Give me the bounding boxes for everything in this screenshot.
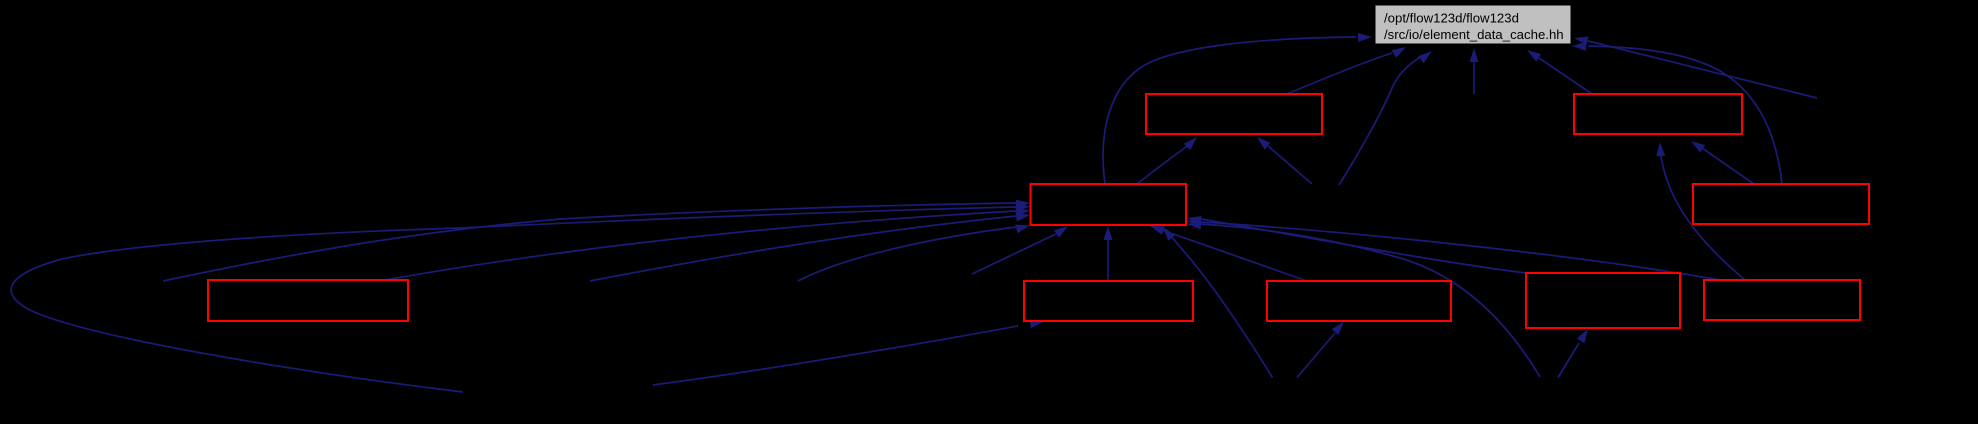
edge B to title — [1527, 50, 1592, 94]
edge bottom node V2 to hub C — [1163, 227, 1273, 378]
node F — [1024, 281, 1193, 321]
edge D to title — [1572, 42, 1782, 184]
node I — [1704, 280, 1860, 320]
edge A to title — [1287, 47, 1406, 94]
edge invisible node 3 to hub C — [972, 226, 1068, 274]
edge C to title — [1103, 33, 1372, 184]
edge far-left node to hub C — [163, 200, 1030, 282]
edge D to B — [1691, 141, 1754, 184]
node H — [1526, 273, 1680, 328]
edge E to hub C — [385, 208, 1030, 281]
node E — [208, 280, 408, 321]
edge I to B — [1656, 142, 1745, 280]
edge bottom-left node to F — [653, 319, 1044, 385]
edge bottom node V3 to H — [1558, 329, 1588, 378]
node G — [1267, 281, 1451, 321]
svg-text:/opt/flow123d/flow123d: /opt/flow123d/flow123d — [1384, 11, 1519, 26]
edge invisible top node to title — [1470, 48, 1479, 94]
edge bottom node V2 to G — [1297, 322, 1344, 378]
edge invisible node 1 to hub C — [590, 213, 1030, 281]
svg-text:/src/io/element_data_cache.hh: /src/io/element_data_cache.hh — [1384, 27, 1564, 42]
edge I to hub C — [1187, 218, 1720, 280]
node B — [1574, 94, 1742, 134]
edge invisible mid node to A — [1257, 137, 1312, 184]
edge G to hub C — [1150, 226, 1307, 281]
node D — [1693, 184, 1869, 224]
edge F to hub C — [1104, 226, 1113, 281]
node C (hub) — [1031, 184, 1187, 225]
edge invisible node 2 to hub C — [798, 225, 1030, 282]
title node /opt/flow123d/flow123d /src/io/element_data_cache.hh — [1375, 5, 1571, 44]
edge C to A — [1137, 137, 1197, 184]
edge H to hub C — [1187, 216, 1526, 273]
edge bottom node V3 to hub C — [1187, 221, 1540, 378]
edge invisible mid node to title — [1339, 51, 1432, 185]
node A — [1146, 94, 1322, 134]
edge far-right node to title — [1574, 37, 1817, 99]
edge bottom-left node to hub C (long loop) — [11, 203, 1030, 392]
